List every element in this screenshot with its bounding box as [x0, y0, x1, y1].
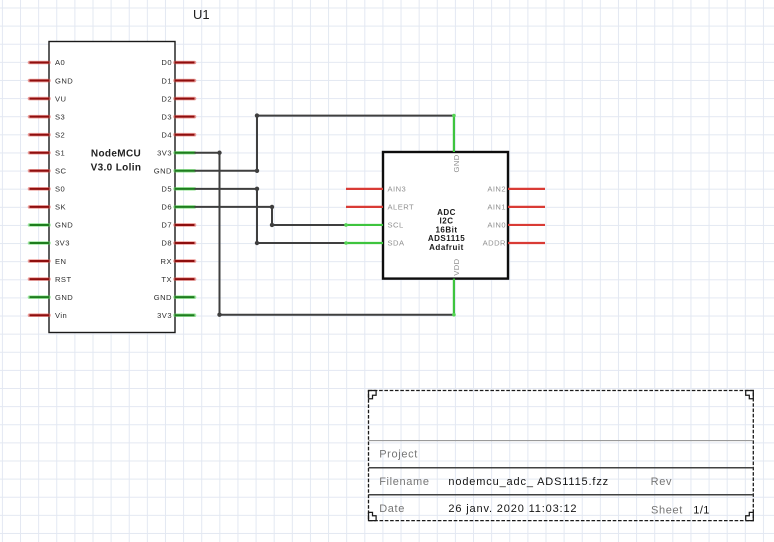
svg-text:GND: GND: [154, 167, 172, 176]
title block texts: [379, 449, 683, 517]
junction ADS VDD terminal: [452, 313, 456, 317]
svg-text:GND: GND: [55, 293, 73, 302]
ADS1115 pin GND (top): [453, 116, 455, 153]
svg-text:Sheet: Sheet: [651, 504, 683, 516]
NodeMCU left pin S3: [30, 115, 50, 119]
svg-text:AIN0: AIN0: [487, 221, 506, 230]
svg-text:nodemcu_adc_ ADS1115.fzz: nodemcu_adc_ ADS1115.fzz: [448, 476, 609, 488]
svg-text:GND: GND: [154, 293, 172, 302]
NodeMCU right pin D0: [175, 61, 195, 65]
NodeMCU right pin D1: [175, 79, 195, 83]
ADS1115 pin ALERT: [346, 206, 383, 208]
svg-text:GND: GND: [55, 221, 73, 230]
NodeMCU left pin RST: [30, 277, 50, 281]
svg-text:AIN1: AIN1: [487, 203, 506, 212]
svg-text:U1: U1: [193, 7, 210, 22]
svg-text:EN: EN: [55, 257, 66, 266]
NodeMCU right pin D2: [175, 97, 195, 101]
IC ADS1115 ADC body: [383, 152, 508, 279]
ADS1115 pin AIN1: [508, 206, 545, 208]
ADS1115 pin SDA: [346, 242, 383, 244]
svg-text:ALERT: ALERT: [388, 203, 415, 212]
svg-text:ADS1115: ADS1115: [428, 234, 465, 243]
svg-text:D6: D6: [161, 203, 172, 212]
svg-text:Rev: Rev: [651, 476, 673, 488]
svg-text:16Bit: 16Bit: [435, 225, 457, 234]
NodeMCU left pin EN: [30, 259, 50, 263]
wire D6 to SCL: [195, 205, 347, 227]
svg-text:D4: D4: [161, 130, 172, 139]
svg-text:S2: S2: [55, 130, 65, 139]
ADS1115 center text: [428, 208, 465, 252]
svg-text:VDD: VDD: [452, 258, 461, 275]
svg-text:SK: SK: [55, 203, 66, 212]
junction SDA terminal: [344, 241, 348, 245]
junction ADS GND terminal: [452, 114, 456, 118]
NodeMCU right pin 3V3: [175, 151, 195, 155]
svg-text:SC: SC: [55, 167, 67, 176]
NodeMCU left pin GND: [30, 295, 50, 299]
frame corner mark: [369, 512, 377, 520]
svg-text:AIN3: AIN3: [388, 185, 407, 194]
svg-text:ADDR: ADDR: [483, 239, 506, 248]
NodeMCU left pin SK: [30, 205, 50, 209]
NodeMCU left pin SC: [30, 169, 50, 173]
frame corner mark: [746, 391, 754, 399]
NodeMCU left pin Vin: [30, 313, 50, 317]
svg-text:GND: GND: [55, 76, 73, 85]
svg-text:RX: RX: [161, 257, 172, 266]
svg-text:Date: Date: [379, 503, 405, 515]
NodeMCU left pin S0: [30, 187, 50, 191]
svg-text:SCL: SCL: [388, 221, 404, 230]
svg-text:D8: D8: [161, 239, 172, 248]
svg-text:Filename: Filename: [379, 476, 429, 488]
wire D5 to SDA: [195, 187, 347, 246]
NodeMCU right pin TX: [175, 277, 195, 281]
svg-text:ADC: ADC: [437, 208, 456, 217]
ADS1115 pin ADDR: [508, 242, 545, 244]
svg-text:Project: Project: [379, 449, 418, 461]
NodeMCU left pin A0: [30, 61, 50, 65]
title block row line (above Filename): [369, 467, 754, 469]
NodeMCU right pin D6: [175, 205, 195, 209]
NodeMCU right pin GND: [175, 169, 195, 173]
svg-text:D0: D0: [161, 58, 172, 67]
svg-text:S0: S0: [55, 185, 65, 194]
svg-text:D1: D1: [161, 76, 172, 85]
svg-text:V3.0 Lolin: V3.0 Lolin: [91, 162, 142, 173]
IC U1 NodeMCU V3.0 Lolin body: [49, 42, 175, 333]
svg-text:3V3: 3V3: [157, 311, 172, 320]
svg-text:VU: VU: [55, 94, 66, 103]
svg-text:TX: TX: [161, 275, 172, 284]
NodeMCU left pin S1: [30, 151, 50, 155]
title block row line (above Date): [369, 494, 754, 496]
frame corner mark: [369, 391, 377, 399]
NodeMCU right pin D8: [175, 241, 195, 245]
NodeMCU left pin GND: [30, 79, 50, 83]
svg-text:S3: S3: [55, 112, 65, 121]
NodeMCU right pin D4: [175, 133, 195, 137]
junction SCL terminal: [344, 223, 348, 227]
svg-text:SDA: SDA: [388, 239, 405, 248]
ADS1115 pin AIN0: [508, 224, 545, 226]
ADS1115 pin AIN3: [346, 188, 383, 190]
NodeMCU left pin GND: [30, 223, 50, 227]
svg-text:S1: S1: [55, 148, 65, 157]
svg-text:I2C: I2C: [440, 217, 454, 226]
svg-text:D2: D2: [161, 94, 172, 103]
svg-text:D7: D7: [161, 221, 172, 230]
NodeMCU left pin S2: [30, 133, 50, 137]
NodeMCU right pin D5: [175, 187, 195, 191]
NodeMCU title text: [91, 148, 142, 173]
NodeMCU right pin D7: [175, 223, 195, 227]
NodeMCU right pin 3V3: [175, 313, 195, 317]
title block frame (dashed): [369, 391, 754, 521]
svg-text:D5: D5: [161, 185, 172, 194]
svg-text:AIN2: AIN2: [487, 185, 506, 194]
ADS1115 pin AIN2: [508, 188, 545, 190]
svg-text:1/1: 1/1: [693, 504, 710, 516]
svg-text:A0: A0: [55, 58, 65, 67]
svg-text:NodeMCU: NodeMCU: [91, 148, 141, 159]
NodeMCU left pin VU: [30, 97, 50, 101]
wire GND net: NodeMCU GND to ADS1115 GND: [195, 113, 454, 173]
NodeMCU right pin D3: [175, 115, 195, 119]
svg-text:3V3: 3V3: [157, 148, 172, 157]
NodeMCU right pin RX: [175, 259, 195, 263]
ADS1115 pin VDD (bottom): [453, 279, 455, 315]
svg-text:GND: GND: [452, 154, 461, 172]
frame corner mark: [746, 512, 754, 520]
ADS1115 pin SCL: [346, 224, 383, 226]
NodeMCU right pin GND: [175, 295, 195, 299]
svg-text:26 janv. 2020 11:03:12: 26 janv. 2020 11:03:12: [448, 503, 577, 515]
svg-text:RST: RST: [55, 275, 72, 284]
svg-text:Vin: Vin: [55, 311, 67, 320]
svg-text:Adafruit: Adafruit: [429, 243, 464, 252]
svg-text:D3: D3: [161, 112, 172, 121]
NodeMCU left pin 3V3: [30, 241, 50, 245]
wire 3V3 net: NodeMCU 3V3 to ADS1115 VDD: [195, 151, 454, 317]
title block row line (above Project): [369, 440, 754, 442]
svg-text:3V3: 3V3: [55, 239, 70, 248]
